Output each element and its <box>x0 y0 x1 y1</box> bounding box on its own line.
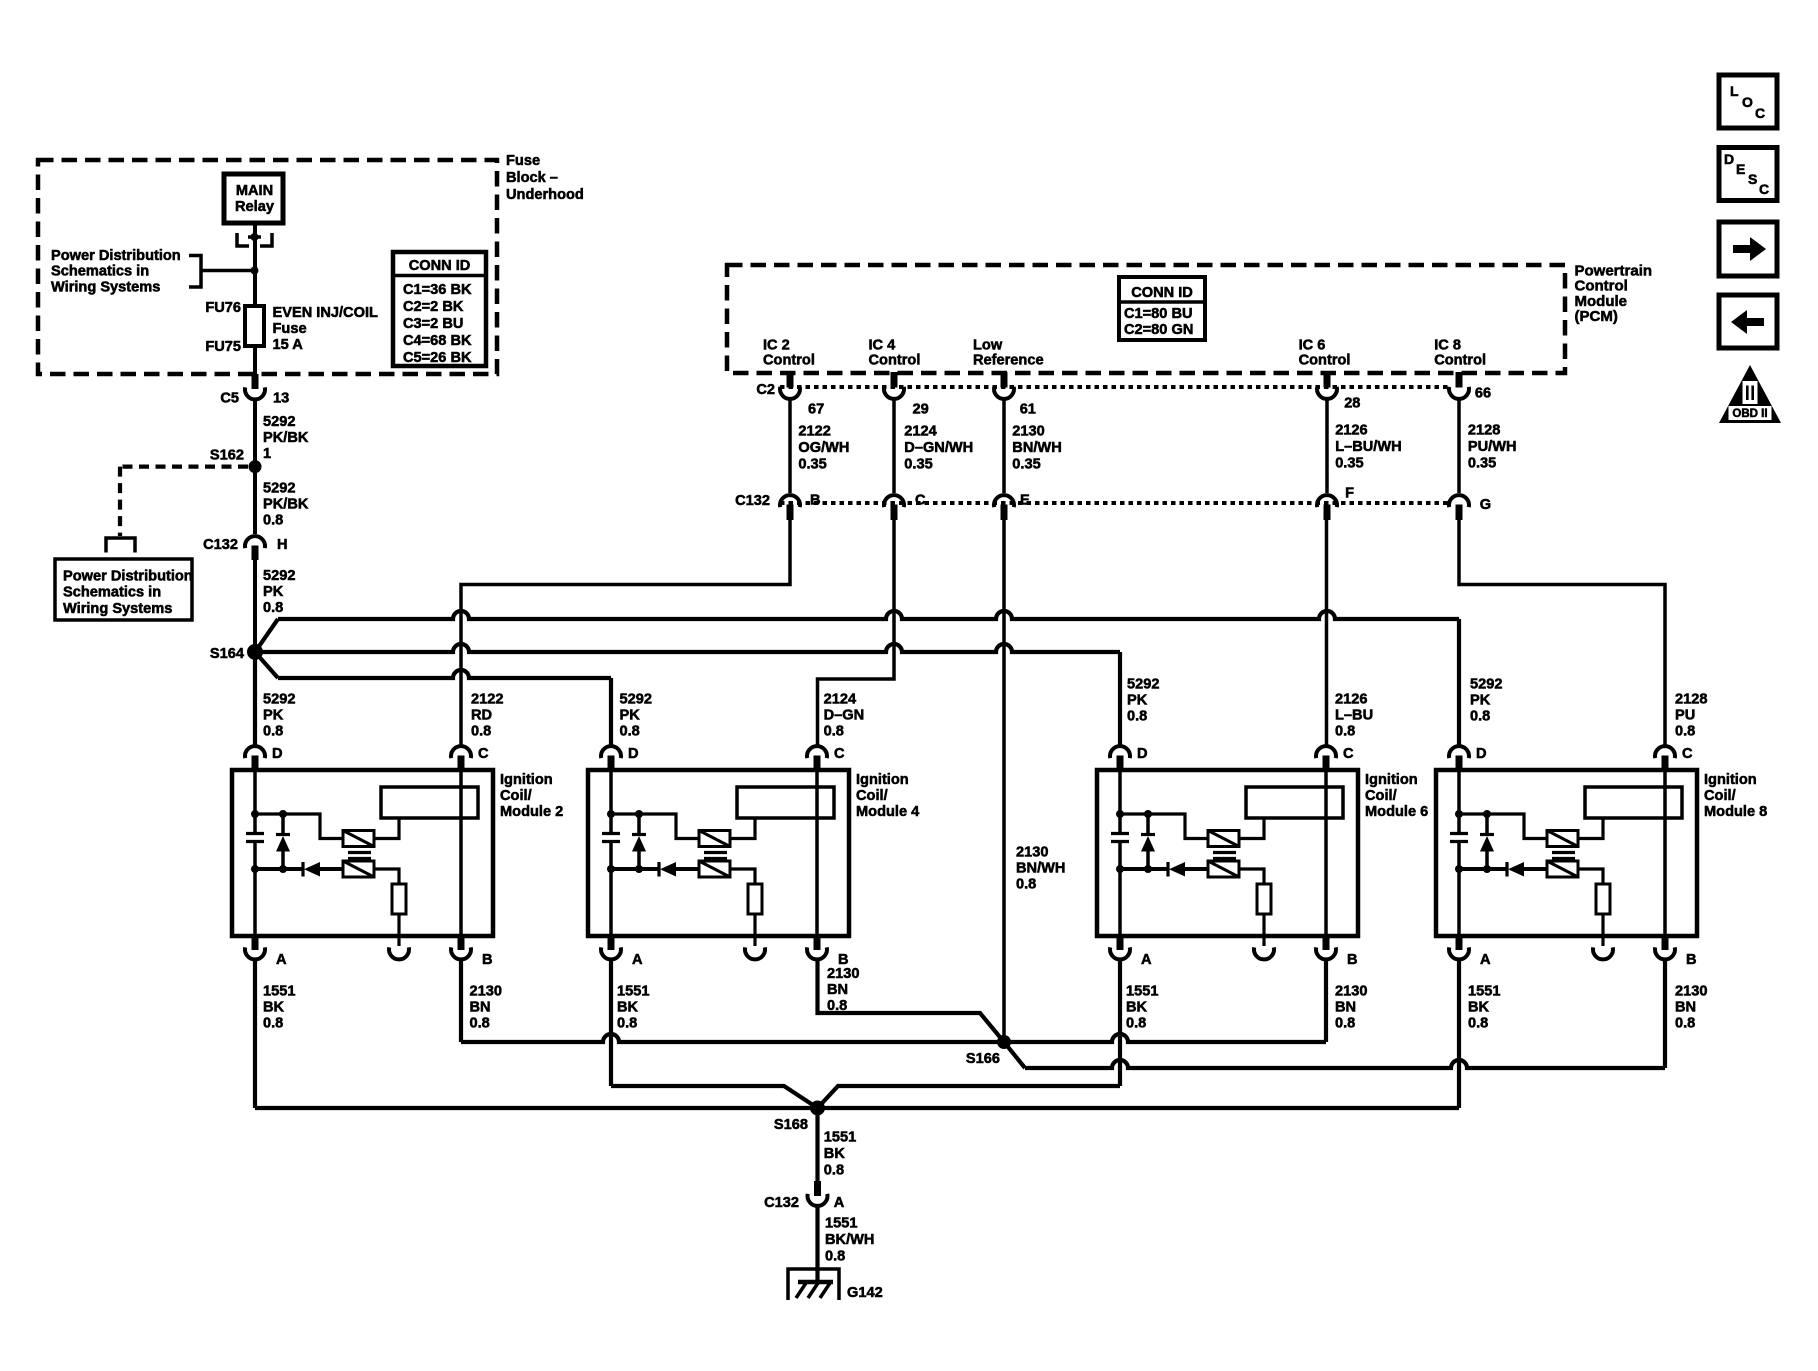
svg-text:PK: PK <box>263 708 284 724</box>
svg-text:0.8: 0.8 <box>620 724 640 740</box>
module 8 wire secondary to resistor <box>1578 869 1603 884</box>
connector C2 dotted line <box>780 385 1450 389</box>
svg-text:BN/WH: BN/WH <box>1016 861 1065 877</box>
svg-text:C2=2 BK: C2=2 BK <box>403 299 464 315</box>
module 8 C to B internal wire <box>1663 771 1667 935</box>
ignition coil module 8 connector D <box>1449 746 1469 758</box>
wire S166 to 2130 bus lower <box>1004 1042 1025 1068</box>
svg-text:Ignition: Ignition <box>500 772 553 788</box>
module 6 wire primary to coil block <box>1239 819 1264 839</box>
svg-text:Module 8: Module 8 <box>1704 804 1767 820</box>
module 2 wire secondary to resistor <box>374 869 399 884</box>
wire MAIN relay to fuse <box>253 223 257 306</box>
svg-text:S: S <box>1748 171 1757 187</box>
module 6 primary coil winding <box>1208 831 1239 847</box>
module 4 A internal wire <box>609 869 613 935</box>
svg-text:C: C <box>1755 105 1765 121</box>
svg-text:O: O <box>1742 94 1753 110</box>
svg-text:Control: Control <box>1299 353 1351 369</box>
wire 5292 PK/BK 1 <box>253 401 257 468</box>
wire low reference C2-61 to C132-E <box>1002 401 1006 494</box>
svg-text:1551: 1551 <box>617 984 649 1000</box>
svg-text:PU/WH: PU/WH <box>1468 439 1517 455</box>
connector C2 pin 66 <box>1456 372 1463 388</box>
connector C2 pin 29 <box>891 372 898 388</box>
svg-text:BN/WH: BN/WH <box>1012 440 1061 456</box>
ignition coil module 4 connector C <box>807 746 827 758</box>
svg-text:Wiring Systems: Wiring Systems <box>51 279 160 295</box>
svg-text:0.8: 0.8 <box>471 724 491 740</box>
wire module8 A 1551 BK down <box>1457 961 1461 1108</box>
svg-text:2124: 2124 <box>824 692 857 708</box>
wire IC2 control C2-67 to C132-B <box>788 401 792 494</box>
svg-text:EVEN INJ/COIL: EVEN INJ/COIL <box>273 305 379 321</box>
svg-text:A: A <box>834 1195 845 1211</box>
module 4 mid connector (not connected) <box>753 935 756 946</box>
module 4 wire secondary to resistor <box>730 869 755 884</box>
svg-text:Coil/: Coil/ <box>1704 788 1736 804</box>
module 2 connector A <box>252 935 259 950</box>
svg-text:B: B <box>482 952 493 968</box>
svg-text:C132: C132 <box>203 537 238 553</box>
wire IC8 control C2-66 to C132-G <box>1457 401 1461 494</box>
connector C132 pin F <box>1317 495 1337 507</box>
svg-text:0.8: 0.8 <box>1675 1016 1695 1032</box>
svg-text:C4=68 BK: C4=68 BK <box>403 333 472 349</box>
svg-text:67: 67 <box>808 402 824 418</box>
module 2 A internal wire <box>253 869 257 935</box>
svg-text:IC 4: IC 4 <box>869 338 897 354</box>
svg-text:0.8: 0.8 <box>1470 709 1490 725</box>
module 4 zener diode <box>637 814 641 834</box>
svg-text:S168: S168 <box>774 1117 808 1133</box>
wire 1551 BK/WH to ground <box>815 1208 819 1283</box>
svg-text:2126: 2126 <box>1335 423 1367 439</box>
svg-text:BN: BN <box>1675 1000 1696 1016</box>
module 6 diode <box>1120 867 1168 871</box>
icon back arrow box <box>1719 295 1777 348</box>
wire S168 to C132 A <box>815 1108 819 1182</box>
svg-text:0.35: 0.35 <box>1012 457 1040 473</box>
wire 2122 RD to module2 C <box>461 520 790 746</box>
svg-text:0.35: 0.35 <box>798 457 826 473</box>
module 8 capacitor <box>1457 814 1461 834</box>
svg-text:FU76: FU76 <box>205 300 241 316</box>
connector C132 pin H <box>245 536 265 548</box>
svg-text:C1=36 BK: C1=36 BK <box>403 282 472 298</box>
svg-text:BK: BK <box>824 1146 846 1162</box>
connector C2 pin 61 <box>1001 372 1008 388</box>
svg-text:Module 4: Module 4 <box>856 804 920 820</box>
svg-text:Coil/: Coil/ <box>1365 788 1397 804</box>
connector C132 pin G <box>1449 495 1469 507</box>
icon OBD II triangle <box>1719 365 1781 423</box>
svg-text:5292: 5292 <box>263 692 295 708</box>
svg-text:B: B <box>1686 952 1697 968</box>
dashed branch from S162 <box>122 465 248 469</box>
svg-text:D: D <box>1724 151 1734 167</box>
module 6 A internal wire <box>1118 869 1122 935</box>
module 2 wire resistor to mid terminal <box>397 914 400 935</box>
svg-text:66: 66 <box>1475 386 1491 402</box>
svg-text:1551: 1551 <box>1468 984 1500 1000</box>
module 2 secondary coil winding <box>343 861 374 877</box>
svg-text:IC 6: IC 6 <box>1299 338 1326 354</box>
svg-text:Wiring Systems: Wiring Systems <box>63 601 172 617</box>
connector C132 dotted line <box>780 501 1450 505</box>
module 4 diode <box>611 867 659 871</box>
svg-text:C: C <box>1682 746 1693 762</box>
module 2 internal D feed wire <box>253 771 257 814</box>
svg-text:A: A <box>276 952 287 968</box>
module 8 secondary coil winding <box>1547 861 1578 877</box>
wire module2 B 2130 BN down <box>459 961 463 1042</box>
svg-text:1551: 1551 <box>824 1130 856 1146</box>
svg-text:S166: S166 <box>966 1051 1000 1067</box>
svg-text:S162: S162 <box>210 448 244 464</box>
svg-text:F: F <box>1345 486 1354 502</box>
ground G142 <box>788 1269 839 1300</box>
ignition coil module 2 box <box>232 770 493 936</box>
splice S162 <box>249 460 262 473</box>
svg-text:5292: 5292 <box>1470 677 1502 693</box>
module 6 coil core <box>1213 851 1236 854</box>
svg-text:0.8: 0.8 <box>470 1016 490 1032</box>
svg-text:5292: 5292 <box>1127 677 1159 693</box>
svg-text:0.8: 0.8 <box>1468 1016 1488 1032</box>
svg-text:C5=26 BK: C5=26 BK <box>403 350 472 366</box>
svg-text:0.8: 0.8 <box>827 998 847 1014</box>
module 2 coil block <box>381 787 478 818</box>
ignition coil module 6 box <box>1097 770 1358 936</box>
module 2 zener diode <box>281 814 285 834</box>
bus 2130 BN module2B-S166-module6B <box>461 1034 1326 1042</box>
module 4 resistor <box>748 884 762 914</box>
svg-text:1551: 1551 <box>825 1216 857 1232</box>
svg-text:Control: Control <box>1575 278 1628 295</box>
connector C132 pin E <box>994 495 1014 507</box>
ignition coil module 8 connector C <box>1655 746 1675 758</box>
module 8 coil core <box>1552 851 1575 854</box>
svg-text:C1=80 BU: C1=80 BU <box>1124 306 1193 322</box>
svg-text:2130: 2130 <box>1675 984 1707 1000</box>
ignition coil module 6 connector C <box>1316 746 1336 758</box>
svg-text:PK/BK: PK/BK <box>263 430 309 446</box>
svg-text:BN: BN <box>470 1000 491 1016</box>
wire module4 A 1551 BK down <box>609 961 613 1086</box>
svg-text:Schematics in: Schematics in <box>51 264 149 280</box>
module 4 internal D feed wire <box>609 771 613 814</box>
svg-text:2130: 2130 <box>1335 984 1367 1000</box>
svg-text:Coil/: Coil/ <box>500 788 532 804</box>
svg-text:BN: BN <box>1335 1000 1356 1016</box>
svg-text:0.8: 0.8 <box>1335 724 1355 740</box>
module 6 connector A <box>1117 935 1124 950</box>
svg-text:Module 2: Module 2 <box>500 804 563 820</box>
svg-text:D–GN: D–GN <box>824 708 865 724</box>
module 8 primary coil winding <box>1547 831 1578 847</box>
svg-text:13: 13 <box>273 391 289 407</box>
svg-text:2122: 2122 <box>471 692 503 708</box>
module 4 coil core <box>704 851 727 854</box>
svg-text:Coil/: Coil/ <box>856 788 888 804</box>
connector C2 pin 67 <box>787 372 794 388</box>
splice S166 <box>997 1035 1011 1049</box>
ignition coil module 2 connector D <box>245 746 265 758</box>
svg-text:H: H <box>277 537 288 553</box>
connector C132 pin A <box>814 1181 821 1196</box>
svg-text:B: B <box>810 493 821 509</box>
fuse FU76/FU75 EVEN INJ/COIL 15A <box>245 306 264 346</box>
module 2 capacitor <box>253 814 257 834</box>
svg-text:C: C <box>1343 746 1354 762</box>
svg-text:BK/WH: BK/WH <box>825 1232 874 1248</box>
junction at relay feed <box>251 267 259 275</box>
module 6 secondary coil winding <box>1208 861 1239 877</box>
svg-text:Block –: Block – <box>506 170 558 186</box>
svg-text:Ignition: Ignition <box>856 772 909 788</box>
svg-text:(PCM): (PCM) <box>1575 308 1618 325</box>
wire 2128 PU to module8 C <box>1459 520 1665 746</box>
fuse block - underhood dashed box <box>38 160 497 374</box>
svg-text:1551: 1551 <box>1126 984 1158 1000</box>
svg-text:0.8: 0.8 <box>263 600 283 616</box>
svg-text:Control: Control <box>869 353 921 369</box>
svg-text:IC 2: IC 2 <box>763 338 790 354</box>
svg-text:PK: PK <box>1127 693 1148 709</box>
module 8 connector B <box>1662 935 1669 950</box>
svg-text:0.8: 0.8 <box>263 724 283 740</box>
svg-text:0.8: 0.8 <box>1127 709 1147 725</box>
svg-text:0.8: 0.8 <box>263 1016 283 1032</box>
svg-text:2130: 2130 <box>1016 845 1048 861</box>
module 4 wire primary to coil block <box>730 819 755 839</box>
svg-text:0.35: 0.35 <box>1468 456 1496 472</box>
svg-text:D: D <box>272 746 283 762</box>
wire 2124 D-GN to module4 C <box>818 520 895 746</box>
module 8 mid connector (not connected) <box>1601 935 1604 946</box>
module 8 coil block <box>1585 787 1682 818</box>
splice S168 <box>810 1101 825 1116</box>
svg-text:PK/BK: PK/BK <box>263 497 309 513</box>
svg-text:C: C <box>834 746 845 762</box>
svg-text:C3=2 BU: C3=2 BU <box>403 316 463 332</box>
module 8 resistor <box>1596 884 1610 914</box>
wire S164 fan bottom to module4 D <box>255 652 278 678</box>
module 6 connector B <box>1323 935 1330 950</box>
svg-text:OG/WH: OG/WH <box>798 440 849 456</box>
svg-text:L: L <box>1730 83 1739 99</box>
svg-text:A: A <box>1480 952 1491 968</box>
svg-text:0.35: 0.35 <box>1335 456 1363 472</box>
module 6 capacitor <box>1118 814 1122 834</box>
svg-text:0.8: 0.8 <box>825 1249 845 1265</box>
svg-text:C132: C132 <box>764 1195 799 1211</box>
svg-text:Low: Low <box>973 338 1003 354</box>
svg-text:Schematics in: Schematics in <box>63 585 161 601</box>
svg-text:B: B <box>1347 952 1358 968</box>
module 4 internal node dots <box>607 810 615 818</box>
svg-text:D: D <box>1476 746 1487 762</box>
module 2 diode <box>255 867 303 871</box>
svg-text:0.8: 0.8 <box>1016 877 1036 893</box>
module 8 connector A <box>1456 935 1463 950</box>
module 2 top internal wire <box>255 814 343 839</box>
svg-text:Relay: Relay <box>235 199 275 215</box>
CONN ID table (fuse block) <box>393 252 486 366</box>
svg-text:2130: 2130 <box>827 966 859 982</box>
module 4 primary coil winding <box>699 831 730 847</box>
module 6 internal D feed wire <box>1118 771 1122 814</box>
MAIN Relay box U1 <box>224 174 283 223</box>
svg-text:Power Distribution: Power Distribution <box>51 248 181 264</box>
svg-text:Ignition: Ignition <box>1704 772 1757 788</box>
wire module4 B 2130 BN to S166 <box>818 961 1005 1042</box>
svg-text:29: 29 <box>913 402 929 418</box>
svg-text:OBD II: OBD II <box>1732 408 1767 420</box>
icon LOC box <box>1719 75 1777 128</box>
svg-text:D–GN/WH: D–GN/WH <box>904 440 973 456</box>
svg-text:5292: 5292 <box>263 414 295 430</box>
connector C5 pin 13 <box>252 374 259 389</box>
module 2 internal node dots <box>251 810 259 818</box>
module 6 C to B internal wire <box>1324 771 1328 935</box>
svg-text:Underhood: Underhood <box>506 187 584 203</box>
module 6 mid connector (not connected) <box>1262 935 1265 946</box>
svg-text:L–BU: L–BU <box>1335 708 1373 724</box>
wire bracket to main feed <box>201 269 251 273</box>
module 2 connector B <box>458 935 465 950</box>
svg-text:0.8: 0.8 <box>824 724 844 740</box>
module 6 resistor <box>1257 884 1271 914</box>
svg-text:BN: BN <box>827 982 848 998</box>
svg-text:BK: BK <box>1468 1000 1490 1016</box>
svg-text:IC 8: IC 8 <box>1434 338 1461 354</box>
wire 2130 BN/WH low reference to S166 <box>1002 520 1006 1042</box>
module 2 coil core <box>348 851 371 854</box>
svg-text:MAIN: MAIN <box>236 183 273 199</box>
wire fuse to C5 <box>253 346 257 374</box>
svg-text:C: C <box>478 746 489 762</box>
module 2 primary coil winding <box>343 831 374 847</box>
svg-text:C132: C132 <box>735 493 770 509</box>
Power Distribution Schematics in Wiring Systems box (lower) <box>55 559 192 620</box>
module 2 resistor <box>392 884 406 914</box>
svg-text:28: 28 <box>1344 396 1360 412</box>
module 8 top internal wire <box>1459 814 1547 839</box>
wire S164 fan top to module8 D <box>255 619 278 652</box>
svg-text:G142: G142 <box>847 1285 883 1301</box>
svg-text:C5: C5 <box>220 391 239 407</box>
wire module6 A 1551 BK down <box>1118 961 1122 1086</box>
bus 2130 BN S166-module8B <box>1025 1060 1665 1068</box>
svg-text:0.8: 0.8 <box>1675 724 1695 740</box>
wire S164 down to module2 D <box>253 652 257 746</box>
bus 1551 BK module2A-S168-module8A <box>255 1106 1459 1110</box>
bracket to power distribution note <box>189 256 201 288</box>
wire 2126 L-BU to module6 C <box>1325 520 1329 746</box>
svg-text:L–BU/WH: L–BU/WH <box>1335 439 1401 455</box>
ignition coil module 6 connector D <box>1110 746 1130 758</box>
CONN ID table (PCM) <box>1119 277 1205 340</box>
svg-text:BK: BK <box>617 1000 639 1016</box>
connector C132 pin C <box>884 495 904 507</box>
module 8 internal node dots <box>1455 810 1463 818</box>
svg-text:0.8: 0.8 <box>263 513 283 529</box>
svg-text:5292: 5292 <box>620 692 652 708</box>
svg-text:5292: 5292 <box>263 481 295 497</box>
svg-text:5292: 5292 <box>263 568 295 584</box>
svg-text:A: A <box>1141 952 1152 968</box>
wire module8 B 2130 BN down <box>1663 961 1667 1068</box>
svg-text:BK: BK <box>1126 1000 1148 1016</box>
ignition coil module 4 box <box>588 770 849 936</box>
svg-text:G: G <box>1480 497 1491 513</box>
svg-text:Power Distribution: Power Distribution <box>63 569 193 585</box>
module 4 capacitor <box>609 814 613 834</box>
svg-text:Module 6: Module 6 <box>1365 804 1428 820</box>
svg-text:CONN ID: CONN ID <box>409 258 471 274</box>
module 6 zener diode <box>1146 814 1150 834</box>
svg-text:0.8: 0.8 <box>617 1016 637 1032</box>
svg-text:Control: Control <box>763 353 815 369</box>
svg-text:0.8: 0.8 <box>824 1163 844 1179</box>
module 6 internal node dots <box>1116 810 1124 818</box>
module 6 wire secondary to resistor <box>1239 869 1264 884</box>
connector C132 pin B <box>780 495 800 507</box>
svg-text:D: D <box>628 746 639 762</box>
module 4 C to B internal wire <box>815 771 819 935</box>
module 4 connector A <box>608 935 615 950</box>
connector C2 pin 28 <box>1324 372 1331 388</box>
bus 1551 BK module4A-module6A with S168 dip <box>611 1086 1120 1108</box>
svg-text:PK: PK <box>263 584 284 600</box>
svg-text:61: 61 <box>1020 402 1036 418</box>
svg-text:1: 1 <box>263 446 271 462</box>
svg-text:2130: 2130 <box>1012 424 1044 440</box>
wire module6 B 2130 BN down <box>1324 961 1328 1042</box>
module 4 top internal wire <box>611 814 699 839</box>
bracket above power distribution note box <box>106 538 135 553</box>
module 2 mid connector (not connected) <box>397 935 400 946</box>
svg-text:0.8: 0.8 <box>1126 1016 1146 1032</box>
svg-text:E: E <box>1736 161 1745 177</box>
svg-text:15 A: 15 A <box>273 337 304 353</box>
svg-text:C: C <box>1759 181 1769 197</box>
module 4 coil block <box>737 787 834 818</box>
svg-text:Control: Control <box>1434 353 1486 369</box>
svg-text:C2=80 GN: C2=80 GN <box>1124 322 1193 338</box>
wire 5292 PK/BK 0.8 <box>253 467 257 534</box>
svg-text:PK: PK <box>620 708 641 724</box>
ignition coil module 4 connector D <box>601 746 621 758</box>
svg-text:S164: S164 <box>210 646 245 662</box>
wire 5292 PK 0.8 to S164 <box>253 560 257 652</box>
module 8 wire primary to coil block <box>1578 819 1603 839</box>
wire module2 A 1551 BK to ground bus <box>253 961 257 1108</box>
icon DESC box <box>1719 148 1777 201</box>
module 4 secondary coil winding <box>699 861 730 877</box>
svg-text:1551: 1551 <box>263 984 295 1000</box>
svg-text:CONN ID: CONN ID <box>1131 285 1193 301</box>
module 8 zener diode <box>1485 814 1489 834</box>
svg-text:PU: PU <box>1675 708 1695 724</box>
svg-text:2126: 2126 <box>1335 692 1367 708</box>
svg-text:2128: 2128 <box>1468 423 1500 439</box>
module 8 wire resistor to mid terminal <box>1601 914 1604 935</box>
svg-text:FU75: FU75 <box>205 339 241 355</box>
svg-text:E: E <box>1020 493 1030 509</box>
